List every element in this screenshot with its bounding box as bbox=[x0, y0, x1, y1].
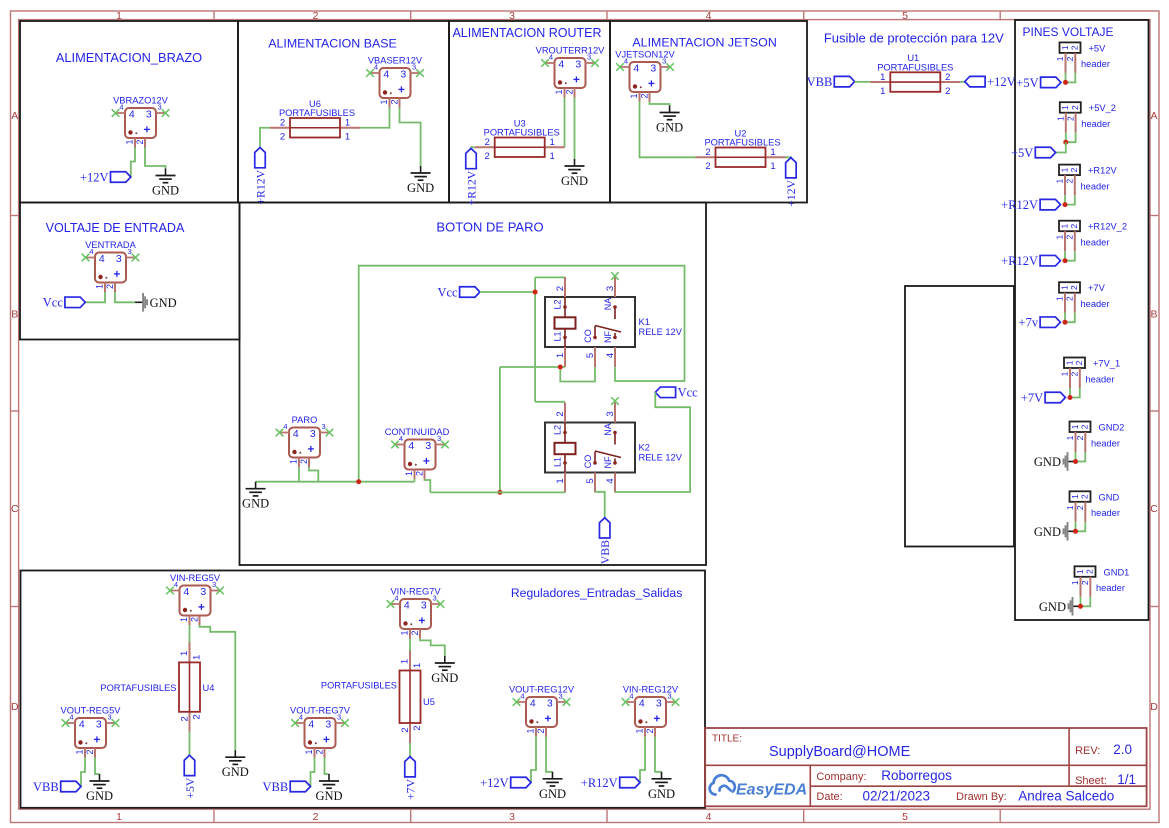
junction GND1 bbox=[1078, 604, 1083, 609]
svg-text:2: 2 bbox=[389, 99, 399, 104]
ground GND (under reg5v) bbox=[234, 750, 236, 757]
net flag +R12V bbox=[1040, 199, 1060, 210]
svg-text:header: header bbox=[1081, 59, 1110, 69]
svg-text:3: 3 bbox=[425, 440, 431, 452]
wire VIN-REG7V pin2 to GND bbox=[420, 639, 445, 657]
svg-text:L1: L1 bbox=[552, 457, 562, 467]
title block frame bbox=[705, 728, 1146, 806]
wire U4 to +5V flag bbox=[189, 732, 191, 756]
net flag Vcc (right) bbox=[655, 387, 675, 398]
svg-text:PORTAFUSIBLES: PORTAFUSIBLES bbox=[100, 683, 176, 693]
svg-text:4: 4 bbox=[624, 57, 628, 66]
svg-text:NF: NF bbox=[603, 331, 613, 343]
svg-text:GND: GND bbox=[407, 181, 434, 195]
svg-text:2: 2 bbox=[410, 630, 420, 635]
ground GND (out reg7v) bbox=[328, 774, 330, 781]
junction GND bbox=[1073, 529, 1078, 534]
svg-text:header: header bbox=[1081, 299, 1110, 309]
svg-text:3: 3 bbox=[146, 109, 152, 121]
svg-text:1: 1 bbox=[1065, 435, 1075, 440]
svg-text:EasyEDA: EasyEDA bbox=[736, 782, 807, 799]
svg-text:4: 4 bbox=[408, 440, 414, 452]
svg-text:3: 3 bbox=[605, 411, 616, 416]
svg-text:1: 1 bbox=[289, 459, 299, 464]
svg-text:4: 4 bbox=[283, 422, 287, 431]
svg-text:1: 1 bbox=[1055, 296, 1065, 301]
svg-text:2.0: 2.0 bbox=[1113, 742, 1132, 757]
wire +7V_1 header pins bbox=[1069, 388, 1071, 398]
svg-text:1: 1 bbox=[880, 86, 885, 97]
svg-text:Fusible de protección para 12V: Fusible de protección para 12V bbox=[824, 31, 1004, 46]
header GND2 bbox=[1070, 422, 1091, 433]
svg-text:1: 1 bbox=[116, 811, 122, 823]
svg-text:1: 1 bbox=[770, 161, 775, 172]
junction at K1 pin1 bbox=[558, 365, 563, 370]
wire U1 to +12V flag bbox=[960, 81, 965, 83]
svg-text:GND: GND bbox=[315, 789, 342, 803]
svg-text:ALIMENTACION_BRAZO: ALIMENTACION_BRAZO bbox=[56, 50, 202, 65]
svg-text:PORTAFUSIBLES: PORTAFUSIBLES bbox=[484, 128, 560, 138]
svg-text:PINES VOLTAJE: PINES VOLTAJE bbox=[1023, 25, 1114, 39]
svg-text:1: 1 bbox=[1059, 223, 1069, 228]
svg-text:1: 1 bbox=[95, 284, 105, 289]
svg-text:Reguladores_Entradas_Salidas: Reguladores_Entradas_Salidas bbox=[511, 586, 682, 600]
svg-text:PARO: PARO bbox=[292, 415, 318, 425]
ground GND (brazo) bbox=[165, 169, 167, 176]
svg-text:3: 3 bbox=[337, 713, 341, 722]
svg-text:2: 2 bbox=[314, 749, 324, 754]
svg-text:4: 4 bbox=[520, 692, 524, 701]
svg-text:4: 4 bbox=[89, 247, 93, 256]
section box ALIMENTACION BASE bbox=[238, 21, 449, 203]
svg-text:VBB: VBB bbox=[807, 75, 833, 89]
wire VBRAZO12V pin1 to +12V bbox=[131, 148, 135, 177]
svg-text:1: 1 bbox=[1060, 371, 1070, 376]
svg-text:2: 2 bbox=[299, 459, 309, 464]
junction Vcc net bbox=[533, 290, 538, 295]
ground GND (out reg5v) bbox=[99, 774, 101, 781]
wire VJETSON12V pin1 to fuse U2 bbox=[640, 102, 696, 158]
svg-text:1: 1 bbox=[526, 728, 536, 733]
svg-text:+R12V_2: +R12V_2 bbox=[1088, 222, 1127, 232]
svg-text:4: 4 bbox=[639, 698, 645, 710]
svg-text:2: 2 bbox=[564, 89, 574, 94]
svg-text:4: 4 bbox=[629, 692, 633, 701]
svg-text:2: 2 bbox=[180, 716, 191, 721]
wire to +5V flag bbox=[1055, 142, 1066, 152]
svg-text:1: 1 bbox=[550, 137, 555, 148]
wire VJETSON12V pin2 to GND bbox=[650, 102, 670, 106]
svg-text:3: 3 bbox=[158, 103, 162, 112]
svg-text:3: 3 bbox=[96, 719, 102, 731]
wire U6 left to +R12V bbox=[260, 128, 270, 148]
ground GND (jetson) bbox=[669, 106, 671, 113]
wire U3 left to +R12V bbox=[471, 147, 475, 148]
svg-text:2: 2 bbox=[639, 93, 649, 98]
wire +5V_2 header pins bbox=[1065, 133, 1067, 143]
svg-text:+5V: +5V bbox=[1011, 146, 1033, 160]
wire VBRAZO12V pin2 to GND bbox=[145, 148, 166, 169]
wire VOUT-REG7V pin2 to GND bbox=[325, 758, 330, 775]
junction GND2 bbox=[1073, 459, 1078, 464]
svg-text:4: 4 bbox=[404, 600, 410, 612]
svg-text:3: 3 bbox=[116, 253, 122, 265]
frame row ticks bbox=[11, 215, 20, 217]
svg-text:ALIMENTACION JETSON: ALIMENTACION JETSON bbox=[632, 35, 776, 49]
svg-text:RELE 12V: RELE 12V bbox=[639, 453, 683, 463]
net flag +5V bbox=[1035, 147, 1055, 158]
svg-text:VBB: VBB bbox=[598, 540, 612, 564]
svg-text:2: 2 bbox=[313, 10, 319, 22]
svg-text:2: 2 bbox=[412, 725, 423, 730]
net flag Vcc (entrada) bbox=[65, 297, 85, 308]
wire VOUT-REG12V pin2 to GND bbox=[546, 737, 553, 772]
svg-text:2: 2 bbox=[400, 727, 411, 732]
svg-text:1: 1 bbox=[345, 132, 350, 143]
svg-text:SupplyBoard@HOME: SupplyBoard@HOME bbox=[769, 744, 911, 760]
svg-text:+R12V: +R12V bbox=[464, 170, 478, 205]
svg-text:1: 1 bbox=[770, 147, 775, 158]
wire VIN-REG7V pin1 to fuse U5 bbox=[409, 639, 411, 651]
svg-text:header: header bbox=[1091, 508, 1120, 518]
svg-text:NA: NA bbox=[603, 423, 613, 436]
svg-text:GND: GND bbox=[222, 765, 249, 779]
svg-text:+7V_1: +7V_1 bbox=[1093, 359, 1120, 369]
svg-text:1: 1 bbox=[1070, 494, 1080, 499]
svg-text:VBB: VBB bbox=[33, 780, 59, 794]
svg-text:PORTAFUSIBLES: PORTAFUSIBLES bbox=[279, 108, 355, 118]
junction +5V bbox=[1063, 80, 1068, 85]
net flag +12V bbox=[111, 172, 131, 183]
svg-text:+R12V: +R12V bbox=[1001, 198, 1038, 212]
wire GND header pins bbox=[1075, 522, 1077, 532]
wire PARO pin1 to gnd rail bbox=[298, 467, 300, 482]
svg-text:2: 2 bbox=[1070, 105, 1080, 110]
svg-text:2: 2 bbox=[1080, 580, 1090, 585]
no-connect X on K1 pin3 bbox=[611, 272, 619, 280]
net flag +12V (jetson) bbox=[786, 158, 797, 178]
svg-text:GND: GND bbox=[150, 296, 177, 310]
net flag +7V (reg) bbox=[405, 757, 416, 777]
svg-text:header: header bbox=[1081, 238, 1110, 248]
svg-text:GND: GND bbox=[1039, 600, 1066, 614]
junction +R12V bbox=[1063, 202, 1068, 207]
power flag GND (GND) bbox=[1068, 530, 1076, 532]
svg-text:1: 1 bbox=[1055, 178, 1065, 183]
svg-text:2: 2 bbox=[280, 118, 285, 129]
net flag +7v bbox=[1040, 317, 1060, 328]
svg-text:L2: L2 bbox=[552, 299, 562, 309]
wire VIN-REG12V pin2 to GND bbox=[655, 737, 662, 772]
wire VOUT-REG5V pin1 to VBB bbox=[81, 758, 85, 787]
svg-text:2: 2 bbox=[1074, 360, 1084, 365]
svg-text:4: 4 bbox=[79, 719, 85, 731]
svg-text:1: 1 bbox=[404, 471, 414, 476]
svg-text:2: 2 bbox=[485, 137, 490, 148]
ground GND (base) bbox=[420, 166, 422, 173]
svg-text:header: header bbox=[1096, 583, 1125, 593]
svg-text:4: 4 bbox=[99, 253, 105, 265]
wire K1 pin5 jog to pin1 net bbox=[560, 367, 595, 382]
svg-text:1: 1 bbox=[179, 617, 189, 622]
svg-text:3: 3 bbox=[212, 580, 216, 589]
svg-text:1: 1 bbox=[1056, 116, 1066, 121]
svg-text:B: B bbox=[1150, 309, 1157, 321]
junction gnd rail bbox=[356, 479, 361, 484]
svg-text:2: 2 bbox=[192, 714, 203, 719]
svg-text:GND: GND bbox=[152, 184, 179, 198]
wire GND2 header pins bbox=[1075, 452, 1077, 462]
svg-text:3: 3 bbox=[325, 719, 331, 731]
svg-text:1: 1 bbox=[550, 151, 555, 162]
svg-text:3: 3 bbox=[559, 692, 563, 701]
svg-text:Company:: Company: bbox=[816, 771, 866, 783]
wire VENTRADA pin1 to Vcc bbox=[85, 292, 105, 302]
svg-text:+5V: +5V bbox=[1089, 43, 1107, 53]
svg-text:3: 3 bbox=[200, 586, 206, 598]
net flag +7V bbox=[1045, 392, 1065, 403]
svg-text:GND1: GND1 bbox=[1104, 567, 1130, 577]
svg-text:2: 2 bbox=[105, 284, 115, 289]
svg-text:2: 2 bbox=[313, 811, 319, 823]
svg-text:3: 3 bbox=[662, 57, 666, 66]
svg-text:K2: K2 bbox=[639, 443, 650, 453]
net flag Vcc (paro left) bbox=[460, 287, 480, 298]
svg-text:4: 4 bbox=[308, 719, 314, 731]
svg-text:+7V: +7V bbox=[1088, 283, 1106, 293]
svg-text:1: 1 bbox=[1059, 167, 1069, 172]
svg-text:4: 4 bbox=[383, 69, 389, 81]
svg-text:2: 2 bbox=[645, 728, 655, 733]
svg-text:2: 2 bbox=[1085, 569, 1095, 574]
power flag GND (entrada) bbox=[135, 301, 143, 303]
wire VIN-REG5V pin2 to GND bbox=[200, 625, 236, 750]
svg-text:2: 2 bbox=[1065, 116, 1075, 121]
svg-text:2: 2 bbox=[1080, 494, 1090, 499]
svg-text:3: 3 bbox=[400, 69, 406, 81]
svg-text:VOUT-REG12V: VOUT-REG12V bbox=[509, 685, 575, 695]
svg-text:GND: GND bbox=[656, 121, 683, 135]
svg-text:+7V: +7V bbox=[1021, 391, 1043, 405]
svg-text:1: 1 bbox=[1064, 360, 1074, 365]
header +R12V bbox=[1059, 165, 1080, 176]
wire GND net left vertical and top run to K1 NF bbox=[359, 266, 685, 482]
svg-text:VOLTAJE DE ENTRADA: VOLTAJE DE ENTRADA bbox=[46, 221, 185, 235]
svg-text:GND: GND bbox=[242, 497, 269, 511]
wire CONTINUIDAD pin1 to gnd rail bbox=[414, 479, 416, 482]
svg-text:+12V: +12V bbox=[80, 170, 109, 184]
svg-text:1: 1 bbox=[1060, 45, 1070, 50]
svg-text:5: 5 bbox=[902, 811, 908, 823]
svg-text:U5: U5 bbox=[423, 697, 435, 707]
svg-text:1: 1 bbox=[554, 89, 564, 94]
net flag +12V (reg12v) bbox=[511, 777, 531, 788]
svg-text:Andrea Salcedo: Andrea Salcedo bbox=[1018, 788, 1114, 803]
svg-text:2: 2 bbox=[555, 411, 566, 416]
svg-text:1: 1 bbox=[400, 659, 411, 664]
svg-text:4: 4 bbox=[394, 594, 398, 603]
wire Vcc right to K2 NF pin4 bbox=[615, 392, 690, 492]
svg-text:GND: GND bbox=[86, 789, 113, 803]
ground GND (in reg12v) bbox=[661, 772, 663, 779]
svg-text:3: 3 bbox=[605, 286, 616, 291]
wire +R12V_2 header pins bbox=[1064, 251, 1066, 261]
svg-text:GND: GND bbox=[648, 787, 675, 801]
net flag +R12V (reg12v) bbox=[620, 777, 640, 788]
svg-text:GND2: GND2 bbox=[1099, 423, 1125, 433]
wire VOUT-REG7V pin1 to VBB bbox=[311, 758, 315, 787]
svg-text:3: 3 bbox=[433, 594, 437, 603]
svg-text:1: 1 bbox=[116, 10, 122, 22]
svg-text:REV:: REV: bbox=[1075, 745, 1100, 757]
svg-text:+7v: +7v bbox=[1019, 316, 1039, 330]
svg-text:4: 4 bbox=[399, 434, 403, 443]
svg-text:header: header bbox=[1081, 119, 1110, 129]
svg-text:1: 1 bbox=[1055, 235, 1065, 240]
wire VOUT-REG12V pin1 to +12V bbox=[531, 737, 536, 783]
wire VBASER12V pin1 down to fuse bbox=[360, 108, 390, 128]
svg-text:+R12V: +R12V bbox=[253, 169, 267, 204]
svg-text:2: 2 bbox=[485, 151, 490, 162]
svg-text:1: 1 bbox=[1059, 285, 1069, 290]
svg-text:1: 1 bbox=[555, 478, 566, 483]
svg-text:B: B bbox=[11, 309, 18, 321]
svg-text:2: 2 bbox=[555, 286, 566, 291]
svg-text:3: 3 bbox=[575, 59, 581, 71]
svg-text:3: 3 bbox=[656, 698, 662, 710]
svg-text:U4: U4 bbox=[203, 683, 215, 693]
empty spare box bbox=[905, 286, 1014, 547]
fuse holder U5 PORTAFUSIBLES bbox=[409, 651, 411, 671]
svg-text:TITLE:: TITLE: bbox=[712, 734, 742, 745]
section box ALIMENTACION JETSON bbox=[610, 21, 807, 203]
wire VBASER12V pin2 to GND bbox=[400, 108, 421, 167]
section box ALIMENTACION ROUTER bbox=[449, 21, 610, 203]
svg-text:4: 4 bbox=[706, 10, 712, 22]
svg-text:4: 4 bbox=[530, 698, 536, 710]
section box PINES VOLTAJE bbox=[1015, 20, 1149, 620]
junction +7V bbox=[1063, 320, 1068, 325]
svg-text:A: A bbox=[11, 110, 18, 122]
svg-text:+12V: +12V bbox=[784, 179, 798, 206]
svg-text:NA: NA bbox=[603, 298, 613, 311]
svg-text:BOTON DE PARO: BOTON DE PARO bbox=[436, 220, 543, 235]
svg-text:1: 1 bbox=[75, 749, 85, 754]
svg-text:2: 2 bbox=[414, 471, 424, 476]
svg-text:3: 3 bbox=[509, 811, 515, 823]
svg-text:3: 3 bbox=[310, 428, 316, 440]
svg-text:GND: GND bbox=[1034, 455, 1061, 469]
wire gnd rail bbox=[256, 481, 415, 483]
svg-text:GND: GND bbox=[1034, 525, 1061, 539]
svg-text:1: 1 bbox=[1070, 424, 1080, 429]
junction at continuidad wire bbox=[497, 490, 502, 495]
svg-text:PORTAFUSIBLES: PORTAFUSIBLES bbox=[321, 681, 397, 691]
svg-text:3: 3 bbox=[108, 713, 112, 722]
wire GND1 header pins bbox=[1080, 597, 1082, 607]
net flag +5V bbox=[1041, 77, 1061, 88]
header +5V_2 bbox=[1060, 102, 1081, 113]
svg-text:1: 1 bbox=[629, 93, 639, 98]
wire +R12V header pins bbox=[1064, 195, 1066, 205]
svg-text:2: 2 bbox=[1065, 296, 1075, 301]
wire U2 right to +12V bbox=[786, 156, 791, 158]
svg-text:2: 2 bbox=[1065, 235, 1075, 240]
svg-text:2: 2 bbox=[1069, 167, 1079, 172]
wire K2 pin5 to VBB bbox=[595, 492, 605, 518]
svg-text:2: 2 bbox=[705, 161, 710, 172]
section box BOTON DE PARO bbox=[240, 203, 707, 566]
svg-text:GND: GND bbox=[561, 174, 588, 188]
svg-text:5: 5 bbox=[585, 478, 596, 483]
svg-text:+5V: +5V bbox=[183, 777, 197, 799]
svg-text:+12V: +12V bbox=[480, 776, 509, 790]
svg-text:Sheet:: Sheet: bbox=[1075, 775, 1107, 787]
svg-text:+R12V: +R12V bbox=[581, 776, 618, 790]
svg-text:1: 1 bbox=[635, 728, 645, 733]
svg-text:2: 2 bbox=[1070, 45, 1080, 50]
svg-text:RELE 12V: RELE 12V bbox=[639, 327, 683, 337]
svg-text:2: 2 bbox=[280, 132, 285, 143]
svg-text:header: header bbox=[1086, 374, 1115, 384]
header GND1 bbox=[1075, 566, 1096, 577]
net flag +R12V bbox=[1040, 255, 1060, 266]
net flag VBB (reg5v) bbox=[61, 781, 81, 792]
svg-text:3: 3 bbox=[587, 53, 591, 62]
svg-text:1: 1 bbox=[345, 118, 350, 129]
wire VBB to fuse U1 bbox=[855, 81, 871, 83]
svg-text:4: 4 bbox=[183, 586, 189, 598]
svg-text:2: 2 bbox=[1065, 56, 1075, 61]
wire vertical to continuidad net bbox=[499, 367, 501, 492]
svg-text:2: 2 bbox=[945, 72, 950, 83]
wire VROUTERR12V pin1 down to fuse U3 bbox=[564, 98, 566, 148]
svg-text:2: 2 bbox=[705, 147, 710, 158]
ground GND (under reg7v) bbox=[444, 656, 446, 663]
svg-text:2: 2 bbox=[1070, 371, 1080, 376]
svg-text:1: 1 bbox=[880, 72, 885, 83]
header +5V bbox=[1060, 42, 1081, 53]
svg-text:Drawn By:: Drawn By: bbox=[956, 791, 1007, 803]
net flag +5V (reg) bbox=[184, 755, 195, 775]
header +7V_1 bbox=[1064, 358, 1085, 369]
svg-text:L1: L1 bbox=[552, 331, 562, 341]
svg-text:Vcc: Vcc bbox=[437, 285, 458, 299]
svg-text:3: 3 bbox=[421, 600, 427, 612]
svg-text:1: 1 bbox=[304, 749, 314, 754]
junction +7V_1 bbox=[1068, 395, 1073, 400]
svg-text:D: D bbox=[1150, 701, 1158, 713]
svg-text:1: 1 bbox=[1060, 105, 1070, 110]
svg-text:4: 4 bbox=[293, 428, 299, 440]
svg-text:4: 4 bbox=[605, 353, 616, 358]
svg-text:4: 4 bbox=[633, 63, 639, 75]
wire U5 to +7V flag bbox=[409, 743, 411, 757]
svg-text:3: 3 bbox=[650, 63, 656, 75]
fuse holder U4 PORTAFUSIBLES bbox=[189, 642, 191, 662]
svg-text:2: 2 bbox=[1075, 505, 1085, 510]
svg-text:2: 2 bbox=[1069, 285, 1079, 290]
ground GND (paro) bbox=[255, 482, 257, 489]
power flag GND (GND1) bbox=[1073, 605, 1081, 607]
wire VIN-REG5V pin1 to fuse U4 bbox=[189, 625, 191, 643]
svg-text:2: 2 bbox=[189, 617, 199, 622]
svg-text:1/1: 1/1 bbox=[1117, 772, 1136, 787]
wire VENTRADA pin2 to GND flag bbox=[115, 292, 135, 302]
svg-text:+5V_2: +5V_2 bbox=[1089, 103, 1116, 113]
wire +7V header pins bbox=[1064, 313, 1066, 323]
svg-text:VBB: VBB bbox=[262, 780, 288, 794]
